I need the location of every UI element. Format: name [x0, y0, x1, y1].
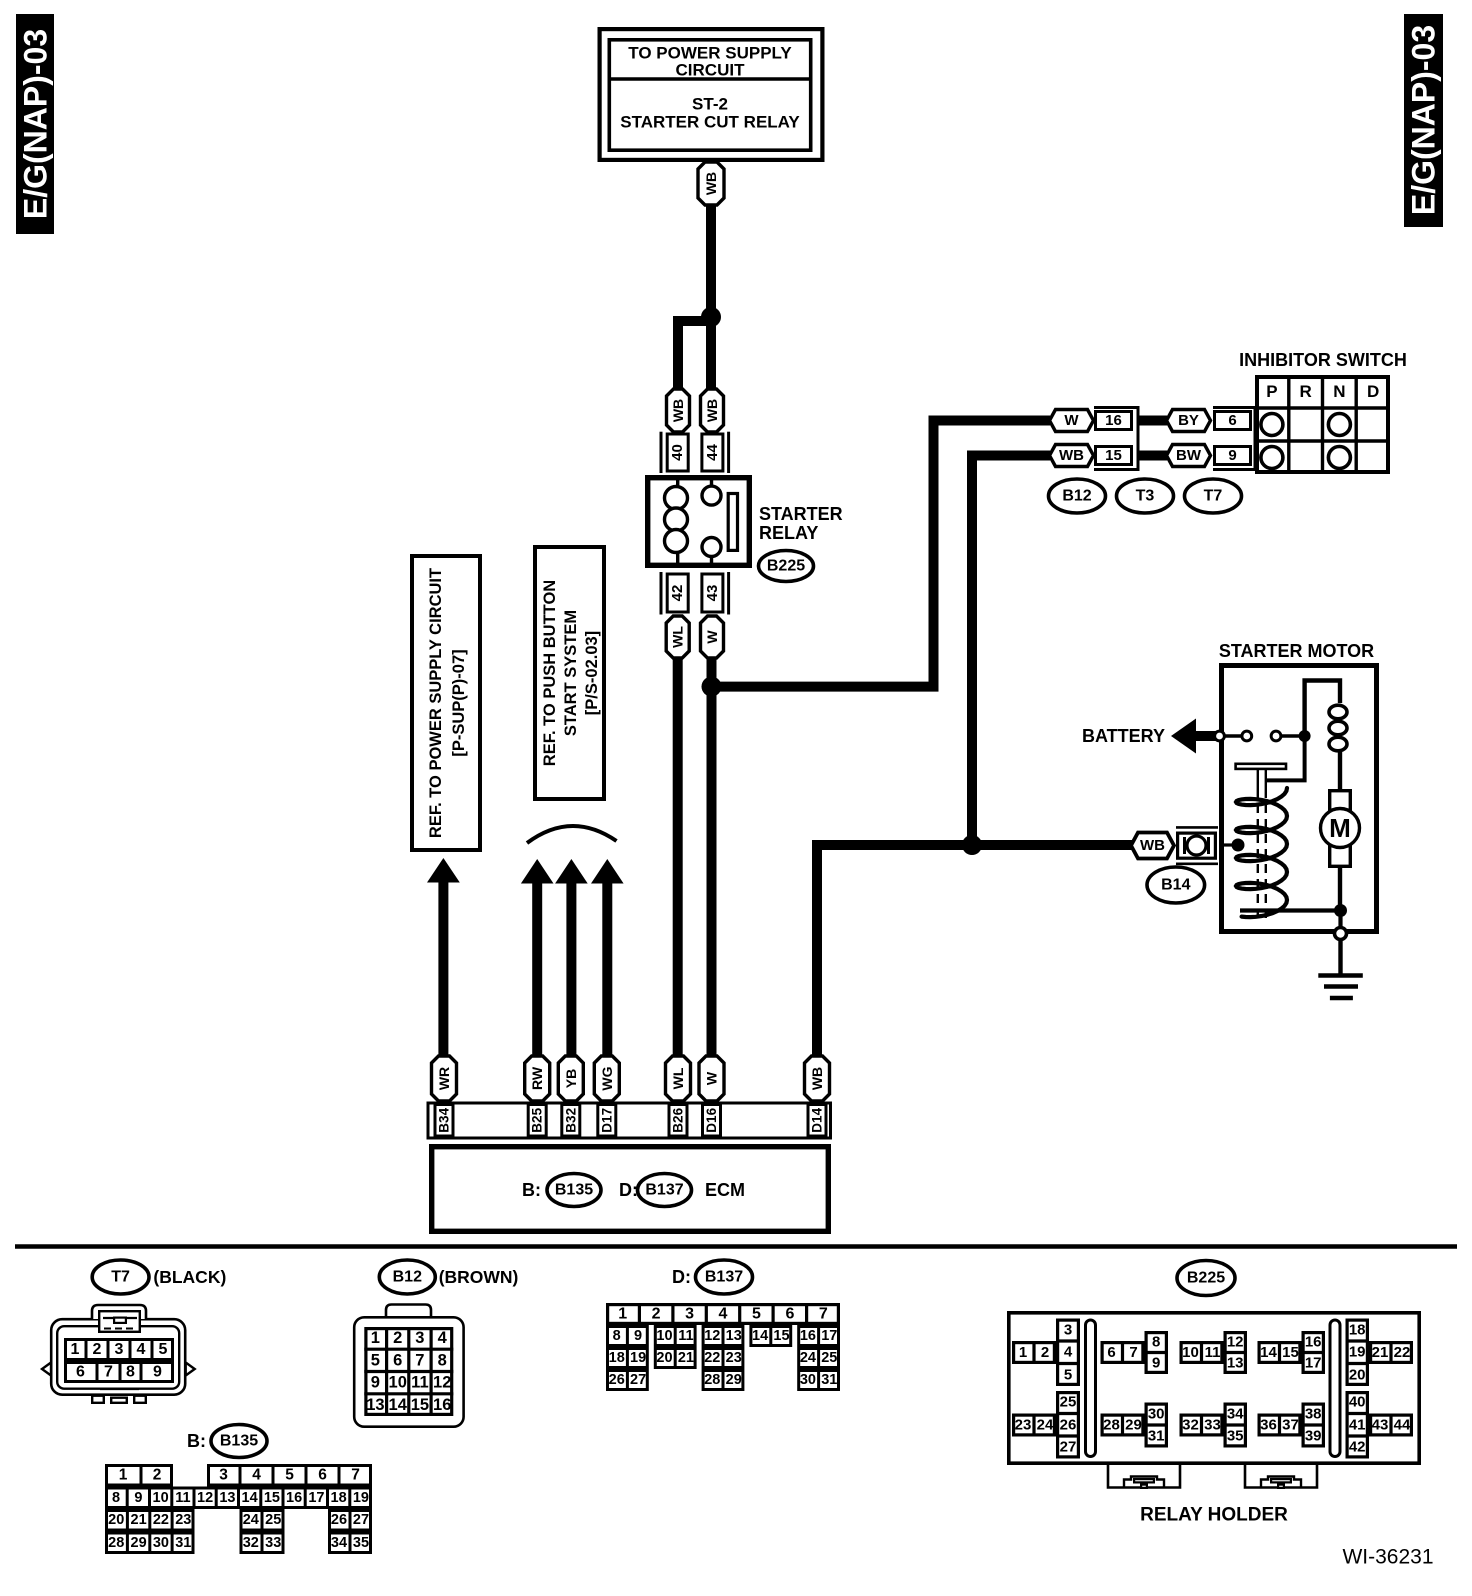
svg-text:14: 14 [752, 1328, 768, 1344]
ECM pin D17 [598, 1105, 616, 1137]
svg-text:21: 21 [1372, 1344, 1389, 1361]
connector color label BW (inhibitor 9) [1167, 445, 1211, 467]
connector B12 [1049, 479, 1106, 513]
svg-text:4: 4 [438, 1329, 448, 1347]
svg-text:39: 39 [1305, 1428, 1322, 1445]
relay holder pins 10-13 [1181, 1333, 1247, 1373]
svg-text:27: 27 [630, 1372, 646, 1388]
label STARTER RELAY [759, 504, 843, 543]
svg-text:40: 40 [669, 444, 686, 461]
connector color label W (inhibitor 16) [1050, 410, 1094, 432]
svg-text:1: 1 [119, 1467, 128, 1484]
svg-text:D:: D: [619, 1180, 638, 1200]
svg-text:26: 26 [331, 1512, 347, 1528]
svg-text:R: R [1299, 382, 1311, 401]
node junction WB wires [962, 835, 982, 855]
ECM pin B26 [669, 1105, 687, 1137]
svg-text:9: 9 [371, 1374, 380, 1392]
ECM pin B32 [562, 1105, 580, 1137]
svg-text:D: D [1367, 382, 1379, 401]
svg-text:BATTERY: BATTERY [1082, 726, 1165, 746]
svg-text:12: 12 [197, 1490, 213, 1506]
svg-text:15: 15 [264, 1490, 280, 1506]
connector color label WB (starter motor B14) [1131, 833, 1174, 859]
ECM pin B34 [435, 1105, 453, 1137]
svg-text:W: W [1064, 412, 1079, 429]
svg-text:15: 15 [773, 1328, 789, 1344]
wire W from relay pin 43 to ECM D16 [707, 658, 717, 1057]
wire to ground [1338, 940, 1342, 974]
pin 16 [1096, 412, 1132, 430]
pin 43 [702, 574, 723, 612]
svg-text:8: 8 [112, 1490, 120, 1506]
connector B137 callout [672, 1260, 753, 1294]
svg-text:10: 10 [153, 1490, 169, 1506]
relay holder pins 23-27 [1014, 1393, 1080, 1457]
svg-text:33: 33 [265, 1535, 281, 1551]
svg-text:5: 5 [285, 1467, 294, 1484]
svg-text:M: M [1329, 813, 1351, 843]
connector B12 callout [379, 1260, 518, 1294]
connector color label WG (ECM D17) [594, 1056, 619, 1101]
svg-text:30: 30 [153, 1535, 169, 1551]
svg-text:29: 29 [131, 1535, 147, 1551]
svg-text:29: 29 [1125, 1417, 1142, 1434]
arc grouping push button wires [527, 826, 617, 843]
svg-text:WB: WB [809, 1067, 825, 1090]
svg-text:33: 33 [1204, 1417, 1221, 1434]
relay holder pins 36-39 [1259, 1404, 1325, 1446]
svg-text:WI-36231: WI-36231 [1342, 1546, 1433, 1569]
svg-text:43: 43 [1372, 1417, 1389, 1434]
svg-text:22: 22 [1394, 1344, 1411, 1361]
svg-text:16: 16 [1105, 412, 1122, 429]
svg-text:ECM: ECM [705, 1180, 745, 1200]
svg-text:8: 8 [438, 1351, 447, 1369]
svg-text:6: 6 [785, 1306, 794, 1323]
connector color label WR (ECM B34) [432, 1056, 457, 1101]
svg-text:B:: B: [522, 1180, 541, 1200]
relay contact bar [728, 494, 737, 551]
label B: [522, 1180, 541, 1200]
svg-text:E/G(NAP)-03: E/G(NAP)-03 [18, 29, 54, 219]
ref box: REF. TO POWER SUPPLY CIRCUIT [P-SUP(P)-07] [412, 556, 480, 850]
svg-text:14: 14 [389, 1396, 408, 1414]
svg-text:WB: WB [703, 172, 719, 195]
svg-text:WL: WL [670, 626, 686, 648]
plunger dashed rod [1258, 789, 1266, 923]
svg-text:38: 38 [1305, 1405, 1322, 1422]
T7 connector body [51, 1319, 185, 1395]
svg-text:B135: B135 [220, 1433, 258, 1450]
svg-text:B32: B32 [563, 1108, 578, 1133]
node motor ground junction [1334, 904, 1347, 917]
svg-text:WR: WR [436, 1067, 452, 1090]
svg-text:23: 23 [726, 1350, 742, 1366]
svg-text:T3: T3 [1136, 488, 1155, 505]
svg-text:STARTER CUT RELAY: STARTER CUT RELAY [620, 113, 800, 132]
relay holder mount tab left [1108, 1465, 1180, 1488]
svg-text:B:: B: [187, 1431, 206, 1451]
svg-text:3: 3 [115, 1341, 124, 1358]
svg-text:6: 6 [1228, 412, 1236, 429]
svg-text:24: 24 [243, 1512, 259, 1528]
svg-text:W: W [704, 630, 720, 644]
starter motor box [1222, 666, 1377, 932]
connector color label W (ECM D16) [699, 1056, 724, 1101]
svg-text:1: 1 [1019, 1344, 1027, 1361]
connector color label BY (inhibitor 6) [1167, 410, 1211, 432]
svg-text:12: 12 [433, 1374, 451, 1392]
relay holder pins 1-5 [1014, 1320, 1080, 1384]
svg-text:21: 21 [131, 1512, 147, 1528]
ECM pin B25 [528, 1105, 546, 1137]
ECM connector B137 pin map [608, 1303, 839, 1391]
connector color label WB (inhibitor 15) [1050, 445, 1094, 467]
inhibitor switch contact circles [1261, 414, 1351, 469]
connector bracket above starter relay [661, 432, 729, 473]
svg-text:2: 2 [1041, 1344, 1049, 1361]
svg-text:1: 1 [618, 1306, 627, 1323]
svg-text:13: 13 [219, 1490, 235, 1506]
svg-text:40: 40 [1349, 1394, 1366, 1411]
plunger spring [1236, 788, 1287, 917]
relay holder rail left [1086, 1320, 1096, 1457]
T7 pins 6-9 [66, 1361, 173, 1383]
connector B225 callout [1177, 1261, 1235, 1296]
connector color label WL (ECM B26) [666, 1056, 691, 1101]
svg-text:9: 9 [1228, 447, 1236, 464]
svg-text:28: 28 [108, 1535, 124, 1551]
svg-text:8: 8 [126, 1364, 135, 1381]
ECM box [432, 1147, 829, 1232]
svg-text:3: 3 [415, 1329, 424, 1347]
svg-text:B26: B26 [671, 1107, 686, 1132]
wire WB from inhibitor switch 15 down [972, 456, 1050, 846]
svg-text:B12: B12 [1062, 488, 1091, 505]
svg-text:13: 13 [366, 1396, 384, 1414]
svg-text:17: 17 [308, 1490, 324, 1506]
inhibitor switch table [1255, 375, 1390, 474]
connector T7 callout [92, 1260, 226, 1294]
svg-text:RELAY: RELAY [759, 523, 818, 543]
svg-text:WG: WG [599, 1066, 615, 1090]
svg-text:WL: WL [670, 1067, 686, 1089]
svg-text:B14: B14 [1161, 877, 1190, 894]
connector color label WB (top wire) [698, 162, 724, 205]
svg-text:(BLACK): (BLACK) [153, 1267, 226, 1287]
svg-text:D17: D17 [599, 1108, 614, 1133]
svg-text:18: 18 [1349, 1321, 1366, 1338]
svg-text:WB: WB [670, 399, 686, 422]
svg-text:9: 9 [134, 1490, 142, 1506]
battery arrow [1171, 719, 1220, 754]
motor contact terminals [1215, 730, 1311, 742]
svg-text:21: 21 [678, 1350, 694, 1366]
svg-text:27: 27 [1060, 1439, 1077, 1456]
ground [1318, 976, 1363, 999]
svg-text:44: 44 [1394, 1417, 1411, 1434]
svg-text:9: 9 [1152, 1355, 1160, 1372]
arrow + wire YB to ECM B32 [555, 859, 588, 1057]
svg-text:D14: D14 [810, 1107, 825, 1132]
svg-text:T7: T7 [1204, 488, 1223, 505]
svg-text:4: 4 [137, 1341, 146, 1358]
wire 16 to BY [1138, 416, 1167, 426]
svg-text:7: 7 [415, 1351, 424, 1369]
T7 side wedges [42, 1363, 195, 1376]
arrow + wire WG to ECM D17 [591, 859, 624, 1057]
wire from contact up over to field coil [1305, 681, 1340, 737]
connector color label YB (ECM B32) [558, 1056, 583, 1101]
svg-text:(BROWN): (BROWN) [439, 1267, 519, 1287]
relay holder pins 40-44 [1346, 1393, 1412, 1457]
svg-text:[P/S-02.03]: [P/S-02.03] [583, 631, 601, 715]
svg-text:STARTER: STARTER [759, 504, 843, 524]
connector B137 (ECM) [638, 1174, 692, 1207]
svg-text:6: 6 [318, 1467, 327, 1484]
svg-text:34: 34 [331, 1535, 347, 1551]
svg-text:13: 13 [726, 1328, 742, 1344]
plunger T bar [1236, 764, 1286, 789]
connector color label W (relay pin 43) [701, 616, 724, 658]
pin 15 [1096, 447, 1132, 465]
connector T3 [1117, 479, 1174, 513]
arrow + wire RW to ECM B25 [521, 859, 554, 1057]
svg-text:6: 6 [1107, 1344, 1115, 1361]
svg-text:REF. TO POWER SUPPLY CIRCUIT: REF. TO POWER SUPPLY CIRCUIT [427, 568, 445, 838]
connector B225 (starter relay) [759, 551, 814, 582]
svg-text:24: 24 [800, 1350, 816, 1366]
svg-text:15: 15 [1282, 1344, 1299, 1361]
svg-text:BY: BY [1178, 412, 1199, 429]
svg-text:WB: WB [704, 399, 720, 422]
svg-text:20: 20 [1349, 1366, 1366, 1383]
T7 top latch tab [92, 1305, 146, 1332]
svg-text:CIRCUIT: CIRCUIT [676, 61, 746, 80]
svg-text:13: 13 [1227, 1355, 1244, 1372]
svg-text:P: P [1266, 382, 1277, 401]
svg-text:2: 2 [393, 1329, 402, 1347]
svg-text:16: 16 [1305, 1333, 1322, 1350]
svg-text:4: 4 [1064, 1344, 1073, 1361]
svg-text:N: N [1333, 382, 1345, 401]
wire WB into starter motor [1126, 840, 1133, 850]
svg-text:6: 6 [76, 1364, 85, 1381]
svg-text:26: 26 [1060, 1416, 1077, 1433]
svg-text:7: 7 [104, 1364, 113, 1381]
svg-text:STARTER MOTOR: STARTER MOTOR [1219, 641, 1374, 661]
relay holder pins 18-22 [1346, 1320, 1412, 1384]
relay holder pins 6-9 [1102, 1333, 1168, 1373]
svg-text:6: 6 [393, 1351, 402, 1369]
relay coil [665, 477, 688, 566]
svg-text:19: 19 [1349, 1344, 1366, 1361]
svg-text:14: 14 [242, 1490, 258, 1506]
svg-text:44: 44 [704, 444, 721, 461]
svg-text:11: 11 [678, 1328, 693, 1344]
svg-text:20: 20 [108, 1512, 124, 1528]
connector color label WB (relay pin 40) [667, 389, 690, 432]
svg-text:23: 23 [175, 1512, 191, 1528]
svg-text:12: 12 [704, 1328, 720, 1344]
motor field coil [1329, 705, 1347, 789]
B12 connector body [354, 1305, 463, 1427]
svg-text:35: 35 [1227, 1428, 1244, 1445]
svg-text:16: 16 [800, 1328, 816, 1344]
svg-text:7: 7 [351, 1467, 360, 1484]
svg-text:11: 11 [411, 1374, 428, 1392]
pin 9 [1215, 447, 1251, 465]
svg-text:5: 5 [371, 1351, 380, 1369]
svg-text:7: 7 [819, 1306, 828, 1323]
figure number WI-36231 [1342, 1546, 1433, 1569]
svg-text:ST-2: ST-2 [692, 95, 728, 114]
svg-text:W: W [704, 1071, 720, 1085]
svg-text:27: 27 [353, 1512, 369, 1528]
B12 pin grid 1-16 [364, 1327, 453, 1416]
svg-text:43: 43 [704, 585, 721, 602]
svg-text:31: 31 [175, 1535, 191, 1551]
wire 15 to BW [1138, 451, 1167, 461]
svg-text:B135: B135 [555, 1182, 593, 1199]
svg-text:B225: B225 [1187, 1270, 1225, 1287]
relay holder pins 14-17 [1259, 1333, 1325, 1373]
T7 bottom tabs [92, 1389, 146, 1403]
connector B135 callout [187, 1425, 267, 1458]
pin 44 [702, 434, 723, 471]
connector color label RW (ECM B25) [525, 1056, 550, 1101]
relay holder mount tab right [1245, 1465, 1317, 1488]
node WB to plunger [1219, 839, 1245, 852]
svg-text:5: 5 [752, 1306, 761, 1323]
label INHIBITOR SWITCH [1239, 350, 1407, 370]
svg-text:30: 30 [800, 1372, 816, 1388]
svg-text:RW: RW [529, 1066, 545, 1090]
svg-text:18: 18 [331, 1490, 347, 1506]
page label banner left E/G(NAP)-03 [16, 14, 54, 234]
svg-text:25: 25 [821, 1350, 837, 1366]
svg-text:41: 41 [1349, 1416, 1366, 1433]
node junction on wire W [702, 677, 722, 697]
svg-text:INHIBITOR SWITCH: INHIBITOR SWITCH [1239, 350, 1407, 370]
connector bracket T3 [1094, 408, 1138, 470]
wire right branch to relay pin 44 [706, 317, 716, 389]
connector color label WL (relay pin 42) [666, 616, 689, 658]
svg-text:RELAY HOLDER: RELAY HOLDER [1140, 1505, 1288, 1526]
svg-text:36: 36 [1260, 1417, 1277, 1434]
svg-text:WB: WB [1140, 837, 1165, 854]
svg-text:5: 5 [1064, 1366, 1072, 1383]
B14 terminal [1176, 827, 1218, 863]
pin 40 [667, 434, 688, 471]
svg-text:14: 14 [1260, 1344, 1277, 1361]
label ECM [705, 1180, 745, 1200]
arrow + wire WR to ECM B34 [427, 858, 460, 1057]
wire plunger bottom to ground node [1240, 908, 1340, 912]
svg-text:25: 25 [1060, 1394, 1077, 1411]
wire M to ground node [1338, 868, 1342, 910]
svg-text:D:: D: [672, 1267, 691, 1287]
svg-text:4: 4 [252, 1467, 261, 1484]
svg-text:29: 29 [726, 1372, 742, 1388]
svg-text:8: 8 [613, 1328, 621, 1344]
svg-text:16: 16 [286, 1490, 302, 1506]
label RELAY HOLDER [1140, 1505, 1288, 1526]
svg-text:T7: T7 [111, 1269, 130, 1286]
label D: [619, 1180, 638, 1200]
svg-text:BW: BW [1176, 447, 1202, 464]
svg-text:12: 12 [1227, 1333, 1244, 1350]
svg-text:20: 20 [656, 1350, 672, 1366]
separator line [15, 1244, 1457, 1248]
connector B135 (ECM) [547, 1174, 601, 1207]
svg-text:[P-SUP(P)-07]: [P-SUP(P)-07] [450, 649, 468, 756]
svg-text:37: 37 [1282, 1417, 1299, 1434]
relay holder pins 28-31 [1102, 1404, 1168, 1446]
svg-text:2: 2 [93, 1341, 102, 1358]
starter relay B225 box [648, 478, 750, 566]
svg-text:30: 30 [1148, 1405, 1165, 1422]
wire WB from starter cut relay down to junction [706, 205, 716, 317]
ECM pin D14 [808, 1105, 826, 1137]
svg-text:42: 42 [1349, 1439, 1366, 1456]
relay holder rail right [1330, 1320, 1340, 1457]
connector B14 [1147, 867, 1205, 903]
svg-text:35: 35 [353, 1535, 369, 1551]
svg-text:5: 5 [159, 1341, 168, 1358]
wire WL from relay pin 42 to ECM B26 [673, 658, 683, 1057]
ref box: REF. TO PUSH BUTTON START SYSTEM [P/S-02.03] [535, 547, 604, 799]
svg-text:42: 42 [669, 585, 686, 602]
relay holder box [1009, 1313, 1419, 1463]
svg-text:8: 8 [1152, 1333, 1160, 1350]
pin 6 [1215, 412, 1251, 430]
svg-text:2: 2 [652, 1306, 661, 1323]
svg-text:10: 10 [1182, 1344, 1199, 1361]
svg-text:1: 1 [371, 1329, 380, 1347]
wire left branch to relay pin 40 [678, 321, 711, 389]
wire from W junction to inhibitor switch 16 [712, 421, 1051, 687]
svg-text:19: 19 [630, 1350, 646, 1366]
svg-text:E/G(NAP)-03: E/G(NAP)-03 [1406, 25, 1442, 215]
svg-text:34: 34 [1227, 1405, 1244, 1422]
svg-text:START SYSTEM: START SYSTEM [562, 610, 580, 736]
ref box: TO POWER SUPPLY CIRCUIT / ST-2 STARTER CUT RELAY [600, 29, 823, 160]
svg-text:31: 31 [821, 1372, 837, 1388]
svg-text:28: 28 [704, 1372, 720, 1388]
svg-text:3: 3 [219, 1467, 228, 1484]
svg-text:4: 4 [719, 1306, 728, 1323]
connector color label WB (ECM D14) [805, 1056, 830, 1101]
svg-text:11: 11 [1205, 1344, 1221, 1361]
svg-text:22: 22 [704, 1350, 720, 1366]
svg-text:10: 10 [389, 1374, 407, 1392]
svg-text:REF. TO PUSH BUTTON: REF. TO PUSH BUTTON [541, 580, 559, 766]
svg-text:WB: WB [1059, 447, 1084, 464]
svg-text:2: 2 [153, 1467, 162, 1484]
svg-text:3: 3 [685, 1306, 694, 1323]
svg-text:22: 22 [153, 1512, 169, 1528]
connector T7 [1185, 479, 1242, 513]
T7 pins 1-5 [66, 1338, 173, 1361]
node junction of WB wire split [701, 307, 721, 327]
svg-text:23: 23 [1015, 1417, 1032, 1434]
svg-text:7: 7 [1129, 1344, 1137, 1361]
svg-text:11: 11 [175, 1490, 190, 1506]
connector bracket below starter relay [661, 572, 729, 615]
svg-text:B34: B34 [437, 1107, 452, 1132]
